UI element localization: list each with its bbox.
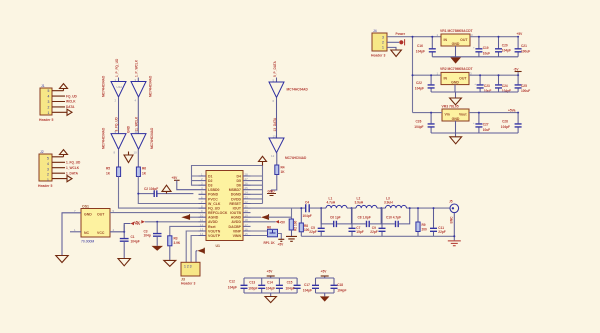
capacitor C10 4.7pF parallel loop (381, 207, 410, 227)
svg-text:C14: C14 (267, 281, 273, 285)
svg-text:12: 12 (200, 223, 204, 227)
svg-text:IOUTB: IOUTB (230, 211, 241, 215)
ground under osc GND (56, 256, 68, 263)
svg-text:Vin: Vin (445, 112, 450, 116)
port arrow at J1 pin 1 (67, 109, 72, 115)
earth ground under jack (448, 241, 461, 246)
IC U1 AD9850 (199, 171, 251, 249)
svg-text:C21: C21 (521, 44, 527, 48)
port arrow IOUTB pin19 (251, 208, 292, 220)
svg-text:+5V: +5V (135, 222, 142, 226)
svg-text:VR1 MC78M05ACDT: VR1 MC78M05ACDT (440, 29, 474, 33)
svg-text:VCC: VCC (97, 231, 105, 235)
svg-text:AGND: AGND (208, 216, 219, 220)
resistor R5 1K (106, 167, 121, 177)
svg-text:2: 2 (48, 105, 50, 109)
svg-text:C6 1pF: C6 1pF (330, 216, 341, 220)
svg-text:1 2 3: 1 2 3 (184, 264, 192, 268)
analog ground solid triangle under C3 (152, 246, 164, 251)
svg-text:AGND: AGND (231, 216, 242, 220)
svg-text:C12: C12 (229, 280, 235, 284)
svg-text:PVCC: PVCC (208, 197, 218, 201)
svg-text:DGND: DGND (231, 193, 242, 197)
svg-text:Header 3: Header 3 (371, 54, 385, 58)
svg-text:C25: C25 (521, 84, 527, 88)
svg-text:Power: Power (396, 32, 406, 36)
wire VR3 input spur (413, 112, 443, 114)
svg-text:PGND: PGND (208, 193, 219, 197)
capacitor C13 104pF (248, 278, 265, 293)
svg-text:15: 15 (245, 232, 249, 236)
svg-text:22pF: 22pF (438, 230, 445, 234)
power +5V to U1 pin11 AVDD (134, 220, 199, 225)
wire J4 pin2 (387, 41, 399, 43)
svg-text:19: 19 (245, 214, 249, 218)
resistor R6 1K (136, 167, 146, 177)
svg-text:DACBP: DACBP (229, 225, 242, 229)
svg-text:VR2 MC79M05ACDT: VR2 MC79M05ACDT (440, 67, 474, 71)
port arrow at J3 pin3 (196, 248, 204, 263)
svg-text:100uF: 100uF (521, 89, 530, 93)
svg-text:IN: IN (444, 76, 448, 80)
capacitor C20 104pF (495, 36, 511, 57)
svg-text:3.9uH: 3.9uH (355, 201, 364, 205)
wire input rail vertical (412, 37, 414, 113)
svg-text:R9: R9 (422, 223, 426, 227)
capacitor C2 104pF (137, 187, 193, 197)
svg-text:NC: NC (84, 231, 90, 235)
svg-text:104pF: 104pF (416, 50, 425, 54)
svg-text:C13: C13 (249, 281, 255, 285)
svg-text:20: 20 (245, 209, 249, 213)
connector J3 Header 3 (181, 262, 200, 285)
svg-text:OUT: OUT (97, 213, 105, 217)
svg-text:D1: D1 (208, 174, 213, 178)
polarity symbol (399, 39, 404, 45)
capacitor C16 104pF (416, 36, 436, 57)
svg-text:REFCLOCK: REFCLOCK (208, 211, 228, 215)
svg-text:IN: IN (444, 38, 448, 42)
svg-text:3: 3 (382, 35, 384, 39)
svg-text:13_DATA: 13_DATA (273, 117, 277, 131)
svg-text:5: 5 (47, 157, 49, 161)
wire cap bank1 rails (244, 276, 297, 296)
svg-text:GND: GND (452, 42, 460, 46)
wire osc NC stub (70, 231, 81, 233)
svg-text:+5V: +5V (172, 176, 179, 180)
svg-text:Rset: Rset (208, 225, 216, 229)
svg-text:U2A: U2A (117, 85, 123, 89)
wire J4 pin3 to regulators rail (387, 36, 441, 38)
capacitor C11 22pF shunt (430, 207, 446, 236)
svg-text:C2 104pF: C2 104pF (144, 187, 158, 191)
wire (272, 175, 277, 193)
wire (276, 98, 278, 139)
capacitor C26 104pF (414, 112, 434, 133)
capacitor C21 100uF (515, 37, 531, 57)
svg-text:BNC: BNC (449, 216, 453, 224)
svg-text:+5V: +5V (321, 270, 328, 274)
svg-text:4: 4 (48, 95, 50, 99)
op-amp U2D inverter MC74HC04AD (131, 130, 146, 155)
regulator VR2 MC79M05ACDT (437, 67, 474, 84)
svg-text:R5: R5 (106, 167, 110, 171)
svg-text:AVDD: AVDD (231, 220, 241, 224)
port arrow at J2 pin 1 (67, 176, 72, 182)
svg-text:13: 13 (273, 134, 277, 138)
svg-text:2: 2 (47, 173, 49, 177)
wire VR1 output (470, 36, 518, 38)
svg-text:18: 18 (245, 218, 249, 222)
svg-text:MC74HC04AD: MC74HC04AD (149, 75, 153, 97)
svg-text:MC74HC04AD: MC74HC04AD (287, 88, 309, 92)
wire (137, 78, 139, 82)
op-amp U2C inverter MC74HC04AD (111, 130, 126, 155)
svg-text:10uF: 10uF (483, 128, 490, 132)
ground under VR2 (450, 98, 462, 105)
svg-text:13: 13 (200, 227, 204, 231)
wire VR3 ground rail (431, 121, 518, 137)
svg-text:OS1: OS1 (82, 205, 89, 209)
wire (276, 153, 278, 165)
svg-text:200: 200 (422, 228, 428, 232)
oscillator OS1 70.000M (74, 205, 115, 244)
svg-text:22: 22 (245, 200, 249, 204)
wire VR1 ground rail (432, 46, 518, 57)
svg-text:104pF: 104pF (131, 240, 140, 244)
svg-text:C16: C16 (417, 44, 423, 48)
power +5V symbol at J2 pin 5 (60, 150, 68, 157)
svg-text:1_DATA: 1_DATA (66, 171, 79, 175)
op-amp U2A inverter MC74HC04AD (111, 78, 126, 103)
svg-text:104pF: 104pF (303, 289, 312, 293)
svg-text:100uF: 100uF (521, 50, 530, 54)
svg-text:+5V: +5V (278, 243, 285, 247)
svg-text:104pF: 104pF (286, 287, 295, 291)
svg-text:104pF: 104pF (303, 214, 312, 218)
wire VR2 output (469, 72, 518, 76)
svg-text:+5V: +5V (279, 221, 286, 225)
svg-text:C1: C1 (131, 235, 135, 239)
wire cap bank2 rails (316, 276, 335, 296)
connector J1 Header 5 (39, 84, 67, 122)
svg-text:D4: D4 (237, 174, 242, 178)
wire (137, 97, 139, 134)
capacitor C5 22pF shunt (309, 208, 324, 236)
svg-text:D2: D2 (208, 179, 213, 183)
svg-text:104pF: 104pF (502, 89, 511, 93)
ground under R3 (164, 260, 176, 266)
svg-text:MC74HC04AD: MC74HC04AD (150, 127, 154, 149)
svg-text:DVDD: DVDD (231, 197, 241, 201)
svg-text:C19: C19 (483, 46, 489, 50)
connector J5 BNC jack (449, 199, 459, 223)
svg-text:27: 27 (245, 177, 249, 181)
svg-text:104pF: 104pF (228, 285, 237, 289)
svg-text:GND: GND (451, 81, 459, 85)
svg-text:VINP: VINP (233, 229, 242, 233)
svg-text:MC74HC04AD: MC74HC04AD (102, 75, 106, 97)
power +5V symbol above C2 wire (162, 185, 171, 193)
capacitor C9 22pF shunt (370, 208, 385, 236)
svg-text:W_CLK: W_CLK (208, 202, 221, 206)
power +5V at osc VCC (124, 222, 141, 232)
svg-text:22pF: 22pF (309, 230, 316, 234)
svg-text:+: + (473, 121, 475, 125)
earth ground under R2 (286, 230, 297, 241)
potentiometer RP1 1K (251, 226, 282, 245)
inductor L2 3.9uH (355, 197, 378, 209)
power +5V bar above bank1 (267, 270, 275, 277)
capacitor C12 104pF (228, 278, 248, 293)
wire data bus pins 1-3 to top rail (192, 166, 263, 186)
svg-text:C15: C15 (287, 281, 293, 285)
svg-text:25: 25 (245, 186, 249, 190)
wire ground rail (301, 235, 454, 237)
wire (169, 246, 171, 261)
connector J2 Header 5 (38, 150, 67, 188)
svg-text:-5V: -5V (514, 67, 520, 71)
svg-text:MC74HC04AD: MC74HC04AD (285, 156, 307, 160)
analog ground solid under bank2 (320, 296, 330, 301)
svg-text:104pF: 104pF (415, 87, 424, 91)
svg-text:RESET: RESET (229, 202, 242, 206)
capacitor C27 10uF (473, 112, 490, 133)
svg-text:DATA: DATA (66, 105, 75, 109)
svg-text:104pF: 104pF (414, 125, 423, 129)
wire W_CLK to U1 pin7 (138, 177, 206, 204)
svg-text:3.9uH: 3.9uH (384, 201, 393, 205)
capacitor C7 15pF shunt (349, 208, 364, 236)
wire IOUT main line (243, 207, 450, 209)
wire (137, 149, 139, 167)
capacitor C25 100uF (515, 75, 531, 93)
svg-text:10: 10 (200, 214, 204, 218)
capacitor C23 10uF (474, 74, 491, 93)
svg-text:17: 17 (245, 223, 249, 227)
svg-text:IOUT: IOUT (233, 207, 242, 211)
power +5V bar above bank2 (321, 270, 329, 277)
svg-text:104pF: 104pF (337, 289, 346, 293)
svg-text:11: 11 (200, 218, 203, 222)
analog ground solid under VR1 (450, 57, 461, 63)
svg-text:2: 2 (382, 41, 384, 45)
svg-text:3.9K: 3.9K (174, 241, 181, 245)
svg-text:VOUTN: VOUTN (208, 229, 221, 233)
power +5V symbol at J1 pin 5 (60, 84, 68, 91)
svg-text:1K: 1K (106, 172, 111, 176)
svg-text:R2 100: R2 100 (294, 220, 298, 231)
wire (118, 78, 120, 82)
wire Rset (170, 226, 199, 235)
svg-text:1_FQ_UD: 1_FQ_UD (66, 161, 81, 165)
ground under J4 (391, 50, 402, 57)
svg-text:+5Va: +5Va (508, 109, 516, 113)
power +5V tap to U1 pin4 (172, 176, 199, 190)
capacitor C17 104pF (303, 278, 319, 293)
svg-text:23: 23 (245, 195, 249, 199)
svg-text:GND: GND (268, 190, 276, 194)
svg-text:J4: J4 (373, 29, 377, 33)
wire (276, 78, 278, 83)
ground bar GND (267, 190, 276, 196)
resistor R8 100 (299, 207, 309, 236)
svg-text:1: 1 (48, 111, 50, 115)
svg-text:C23: C23 (484, 84, 490, 88)
op-amp U2E inverter MC74HC04AD (269, 78, 284, 103)
op-amp U2F inverter MC74HC04AD (269, 134, 284, 158)
power label -5V (514, 67, 522, 71)
svg-text:104pF: 104pF (266, 287, 275, 291)
capacitor C19 10uF (473, 36, 490, 57)
svg-text:AVDD: AVDD (208, 220, 218, 224)
svg-text:WCLK: WCLK (66, 100, 76, 104)
svg-text:10uF: 10uF (483, 52, 490, 56)
wire VOUTP to J3 (191, 236, 198, 263)
connector J4 Header 3 (371, 29, 387, 58)
capacitor C24 104pF (495, 74, 511, 93)
svg-text:+: + (474, 82, 476, 86)
op-amp U2B inverter MC74HC04AD (131, 78, 146, 103)
svg-text:C22: C22 (416, 81, 422, 85)
ground under VR3 (450, 137, 462, 144)
svg-text:C24: C24 (502, 84, 508, 88)
svg-text:C28: C28 (502, 120, 508, 124)
svg-text:14: 14 (200, 232, 204, 236)
svg-text:FQ_UD: FQ_UD (66, 94, 78, 98)
svg-text:MC74HC04AD: MC74HC04AD (102, 127, 106, 149)
svg-text:1: 1 (382, 46, 384, 50)
svg-text:R6: R6 (142, 167, 146, 171)
svg-text:26: 26 (245, 182, 249, 186)
resistor R3 3.9K (168, 236, 181, 246)
svg-text:1_P_FQ_UD: 1_P_FQ_UD (115, 58, 119, 77)
svg-text:D5: D5 (237, 179, 242, 183)
resistor R4 1K (275, 165, 285, 175)
wire FQ_UD to U1 pin8 (119, 177, 207, 209)
svg-text:VR3 78L05: VR3 78L05 (442, 105, 459, 109)
svg-text:R3: R3 (174, 237, 178, 241)
svg-text:VOUTP: VOUTP (208, 234, 221, 238)
svg-text:C8 1.6pF: C8 1.6pF (358, 216, 371, 220)
svg-text:GND: GND (452, 117, 460, 121)
svg-text:22pF: 22pF (370, 230, 377, 234)
svg-text:RP1 1K: RP1 1K (264, 241, 276, 245)
capacitor C18 104pF (331, 278, 347, 293)
svg-text:4.7uH: 4.7uH (327, 201, 336, 205)
svg-text:+: + (473, 46, 475, 50)
svg-text:VINN: VINN (233, 234, 242, 238)
svg-text:104pF: 104pF (501, 125, 510, 129)
svg-text:28: 28 (245, 172, 249, 176)
svg-text:Vout: Vout (459, 112, 467, 116)
svg-text:104p: 104p (144, 234, 151, 238)
svg-text:OUT: OUT (460, 38, 468, 42)
capacitor C15 104pF (286, 278, 301, 293)
capacitor C28 104pF (501, 113, 522, 133)
svg-text:J1: J1 (41, 84, 45, 88)
capacitor C8 1.6pF parallel loop (352, 207, 383, 227)
svg-text:Header 5: Header 5 (38, 184, 52, 188)
svg-text:C18: C18 (337, 283, 343, 287)
svg-text:MSBD7: MSBD7 (229, 188, 241, 192)
svg-text:11: 11 (135, 130, 138, 134)
svg-text:Header 3: Header 3 (181, 282, 195, 286)
svg-text:24: 24 (245, 191, 249, 195)
svg-text:LSBD0: LSBD0 (208, 188, 220, 192)
svg-text:10: 10 (134, 151, 138, 155)
svg-text:16: 16 (245, 227, 249, 231)
capacitor C1 104pF (120, 235, 140, 259)
svg-text:OUT: OUT (459, 76, 467, 80)
wire (118, 149, 120, 167)
svg-text:FQ_UD: FQ_UD (208, 207, 220, 211)
svg-text:104pF: 104pF (502, 49, 511, 53)
svg-text:3: 3 (48, 100, 50, 104)
wire osc VCC (110, 225, 124, 239)
svg-text:+5V: +5V (517, 32, 524, 36)
svg-text:GND: GND (126, 125, 130, 133)
ground under bank1 (265, 297, 276, 303)
capacitor C3 104pF (144, 221, 162, 246)
resistor R9 200 (416, 207, 427, 236)
wire jack to ground (453, 213, 455, 241)
svg-text:70.000M: 70.000M (81, 240, 94, 244)
wire right data pins 28-22 bus (251, 166, 263, 204)
svg-text:Header 5: Header 5 (39, 118, 53, 122)
resistor R2 100 (289, 219, 298, 231)
svg-text:D6: D6 (237, 184, 242, 188)
svg-text:R4: R4 (281, 166, 285, 170)
svg-text:5_P_DATA: 5_P_DATA (273, 60, 277, 77)
svg-text:C26: C26 (416, 120, 422, 124)
svg-text:15pF: 15pF (356, 230, 363, 234)
wire VOUTN to J3 (186, 231, 198, 262)
capacitor C4 104pF series (303, 200, 312, 218)
svg-text:4: 4 (47, 162, 49, 166)
svg-text:1_P_WCLK: 1_P_WCLK (135, 59, 139, 77)
capacitor C14 104pF (266, 278, 283, 293)
capacitor C22 104pF (415, 74, 435, 92)
regulator VR1 MC78M05ACDT (437, 29, 474, 46)
wire VR2 input spur (413, 74, 442, 76)
svg-text:U1: U1 (216, 244, 221, 248)
svg-text:J2: J2 (40, 150, 44, 154)
port arrow REFCLOCK side pin10 (181, 214, 198, 220)
svg-text:10uF: 10uF (484, 89, 491, 93)
wire (118, 97, 120, 134)
svg-text:GND: GND (84, 213, 92, 217)
inductor L3 3.9uH (384, 197, 407, 209)
svg-text:1K: 1K (142, 172, 147, 176)
svg-text:C17: C17 (304, 283, 310, 287)
capacitor C6 1pF parallel loop (320, 207, 352, 227)
wire J4 pin1 (387, 47, 396, 50)
power +5V symbol on data bus (259, 156, 267, 165)
wire VR3 output (469, 112, 518, 114)
svg-text:C27: C27 (483, 123, 489, 127)
wire osc GND to ground (62, 213, 81, 256)
ground bar at RP1 (278, 239, 284, 241)
svg-text:1: 1 (47, 178, 49, 182)
inductor L1 4.7uH (326, 197, 347, 209)
svg-text:D3: D3 (208, 184, 213, 188)
svg-text:12: 12 (271, 154, 275, 158)
svg-text:100pF: 100pF (248, 287, 257, 291)
svg-text:J5: J5 (449, 199, 453, 203)
svg-text:C20: C20 (502, 43, 508, 47)
svg-text:C4: C4 (305, 200, 309, 204)
